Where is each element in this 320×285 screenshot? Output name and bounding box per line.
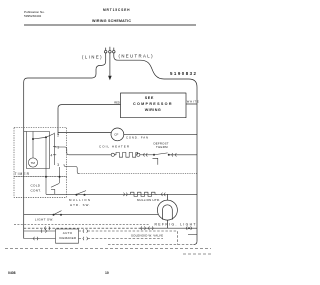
timer motor TM circle	[28, 158, 37, 167]
ground arrow	[108, 76, 112, 81]
wire: contact3 to right dot	[59, 167, 61, 177]
svg-text:10: 10	[105, 271, 109, 275]
contact tick 1	[53, 146, 56, 148]
svg-text:TIMER: TIMER	[15, 172, 30, 176]
plug prong circle left	[104, 50, 107, 53]
light return connector	[141, 227, 153, 230]
svg-text:WHITE: WHITE	[187, 100, 199, 104]
wire: left line bus	[23, 82, 25, 239]
header rule	[24, 24, 196, 26]
node B dot	[45, 136, 47, 138]
terminal dot on timer edge right	[59, 176, 61, 178]
coil heater terminal left	[111, 153, 114, 156]
refrigerator lamp circle	[157, 200, 177, 220]
contact tick 4	[53, 154, 56, 156]
svg-text:SEE: SEE	[145, 96, 154, 100]
svg-text:AUTO: AUTO	[63, 231, 73, 235]
wire: A to TM	[32, 139, 34, 158]
coil heater terminal right	[137, 153, 140, 156]
solenoid wtr valve label (white bg)	[131, 233, 165, 238]
svg-text:RED: RED	[114, 101, 120, 105]
wire: heater to defrost therm	[140, 154, 153, 156]
mullion heater connector left	[124, 193, 128, 196]
icemaker row2 left	[24, 238, 56, 240]
wire: condenser fan feed	[58, 132, 111, 134]
auto icemaker box	[56, 229, 79, 243]
wire: icemaker row2 right dashed	[79, 238, 164, 240]
prong stub mid	[109, 47, 111, 51]
svg-text:HTR. SW.: HTR. SW.	[70, 203, 90, 207]
svg-text:ICEMAKER: ICEMAKER	[59, 236, 77, 240]
svg-text:(LINE): (LINE)	[82, 55, 102, 60]
wire: line-side cord from plug	[24, 53, 106, 82]
defrost connector right pair	[172, 153, 177, 156]
wire: A to B	[33, 137, 46, 139]
svg-text:WIRING SCHEMATIC: WIRING SCHEMATIC	[92, 19, 131, 23]
timer inner box	[27, 132, 50, 169]
defrost therm dot left	[153, 154, 155, 156]
condenser fan motor	[111, 128, 124, 141]
lamp stub bottom	[166, 220, 168, 228]
svg-text:LIGHT SW.: LIGHT SW.	[35, 217, 54, 221]
optional dashed boundary bottom	[5, 248, 211, 250]
svg-text:COMPRESSOR: COMPRESSOR	[133, 102, 172, 106]
plug prong circle right	[113, 50, 116, 53]
svg-text:TM: TM	[31, 161, 36, 165]
mullion switch dot left	[76, 194, 78, 196]
svg-text:THERM: THERM	[156, 145, 168, 149]
svg-text:4: 4	[51, 154, 53, 158]
prong stub right	[113, 48, 115, 51]
wire: bottom dashed row	[108, 244, 194, 246]
svg-text:MULLION HTR.: MULLION HTR.	[137, 198, 160, 202]
cold control blade	[51, 184, 59, 188]
svg-text:CF: CF	[114, 133, 118, 137]
cold control tick	[51, 188, 55, 190]
wire: right neutral bus	[196, 87, 198, 241]
wire: bus to timer box	[24, 131, 27, 133]
svg-text:MULLION: MULLION	[69, 198, 90, 202]
svg-text:3: 3	[57, 163, 59, 167]
wire: stub at bus for valve row	[188, 233, 197, 235]
compressor box	[121, 93, 187, 118]
wire: red wire to compressor	[58, 105, 121, 135]
node A dot	[32, 138, 34, 140]
defrost therm bracket	[153, 158, 158, 165]
lamp filament	[163, 205, 173, 220]
icemaker row2 right connector	[83, 237, 87, 240]
coil heater element	[115, 152, 138, 157]
wire: contact3 link to dotted return	[64, 164, 79, 173]
svg-text:COLD: COLD	[31, 183, 41, 187]
mullion heater element	[129, 192, 158, 196]
light switch dot left	[53, 214, 55, 216]
wire: condenser fan to neutral bus	[124, 134, 197, 136]
wire: icemaker row1 right dashed	[79, 231, 178, 245]
wire: mullion row	[46, 193, 197, 195]
wire: B down to cold control	[45, 137, 47, 194]
prong stub left	[105, 48, 107, 51]
light return connector left	[45, 227, 50, 230]
mullion switch dot right	[84, 194, 86, 196]
wire: bus bottom corner	[194, 241, 198, 244]
icemaker row1 right connector	[83, 229, 87, 232]
svg-text:2: 2	[57, 133, 59, 137]
refrigerator lamp stub top	[166, 194, 168, 200]
wire: timer node drop	[32, 132, 34, 140]
wire: white wire compressor to neutral bus	[186, 103, 197, 105]
optional dashed boundary top	[14, 223, 150, 225]
wire: cold control out drop	[54, 189, 56, 194]
svg-text:1: 1	[57, 145, 59, 149]
svg-text:COND. FAN: COND. FAN	[126, 136, 148, 140]
wire: defrost to bus	[170, 154, 197, 156]
mullion switch blade	[77, 191, 86, 194]
wire: cold control input drop	[59, 177, 61, 183]
light switch blade	[54, 211, 61, 215]
cold control dashed box	[14, 177, 67, 198]
svg-text:5995230402: 5995230402	[24, 14, 41, 18]
icemaker row2 connector left	[34, 237, 38, 240]
svg-text:MRT15CSEH: MRT15CSEH	[103, 8, 130, 12]
defrost connector left pair	[144, 153, 148, 156]
wire: light switch row	[24, 214, 158, 216]
stray dash segment bottom right	[183, 253, 211, 255]
wire: dotted defrost return to bus	[79, 173, 197, 175]
svg-text:WIRING: WIRING	[145, 108, 161, 112]
svg-text:COIL HEATER: COIL HEATER	[99, 145, 130, 149]
timer contact column	[54, 133, 56, 165]
svg-text:(NEUTRAL): (NEUTRAL)	[119, 53, 154, 58]
svg-text:0408: 0408	[8, 271, 16, 275]
wire: neutral-side cord from plug	[114, 53, 197, 87]
terminal dot on timer edge left	[45, 176, 47, 178]
plug prong circle mid	[109, 50, 112, 53]
svg-text:CONT.: CONT.	[31, 189, 42, 193]
timer dashed box	[14, 128, 67, 177]
icemaker row1 left	[24, 230, 56, 232]
wire: contact1 to heater L	[55, 147, 111, 155]
svg-text:SOLENOID W. VALVE: SOLENOID W. VALVE	[131, 234, 163, 238]
timer switch blade	[47, 134, 54, 137]
icemaker row1 connector left	[41, 229, 46, 232]
defrost therm dot right	[168, 154, 170, 156]
defrost therm blade	[155, 153, 168, 155]
svg-text:5190832: 5190832	[170, 71, 197, 76]
mullion heater connector right	[162, 193, 166, 196]
svg-text:REFRIG. LIGHT: REFRIG. LIGHT	[155, 223, 196, 227]
ground wire	[109, 53, 111, 76]
light switch dot right	[60, 214, 62, 216]
wire: light return row	[140, 227, 197, 229]
light return connector near bus	[186, 227, 191, 230]
